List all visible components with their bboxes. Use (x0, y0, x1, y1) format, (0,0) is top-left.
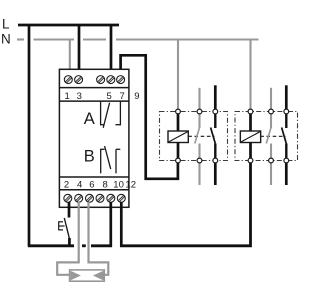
svg-text:12: 12 (125, 180, 136, 191)
svg-text:3: 3 (77, 91, 82, 102)
wire terminal 2 down (68, 202, 71, 218)
contact K2.2 stub above (285, 85, 288, 109)
coil K2 lead lower (249, 143, 252, 161)
L rail (18, 24, 119, 27)
N rail (17, 38, 259, 40)
node K1.2 bottom (213, 158, 218, 163)
node K2.1 bottom (269, 158, 274, 163)
node K1 coil top (176, 109, 181, 114)
node K2 coil bottom (248, 158, 253, 163)
node K1.1 top (197, 109, 202, 114)
svg-text:N: N (1, 32, 11, 47)
terminal 10 (107, 194, 115, 202)
manual switch E actuator (59, 221, 65, 230)
valve M1 (70, 270, 105, 281)
contact K1.2 stub below (214, 163, 217, 186)
wire N to coil K2 (249, 40, 251, 110)
svg-text:1: 1 (65, 91, 70, 102)
wire terminal 10 down (109, 202, 112, 247)
terminal 2 (64, 194, 72, 202)
wire L to terminal 3 (78, 25, 81, 77)
terminal blank top (97, 76, 105, 84)
coil K1 lead upper (177, 114, 180, 132)
svg-text:10: 10 (113, 180, 124, 191)
svg-text:8: 8 (102, 180, 107, 191)
contact K2.1 (266, 114, 271, 159)
wire terminal 12 down (120, 202, 123, 247)
terminal 12 (117, 194, 125, 202)
terminal 3 (75, 76, 83, 84)
top terminal numbers (65, 91, 125, 102)
contact K2.1 stub below (270, 163, 272, 186)
contact K1.1 (195, 114, 200, 159)
node K2.2 bottom (284, 158, 289, 163)
node K1.2 top (213, 109, 218, 114)
switch B (100, 146, 120, 173)
node K1.1 bottom (197, 158, 202, 163)
contact K1.2 (211, 114, 216, 159)
terminal 8 (96, 194, 104, 202)
node K1 coil bottom (176, 158, 181, 163)
svg-text:4: 4 (77, 180, 82, 191)
terminal 7 (117, 76, 125, 84)
bottom terminal numbers (64, 180, 136, 191)
svg-text:2: 2 (64, 180, 69, 191)
contact K2.2 stub below (285, 163, 288, 186)
svg-text:L: L (2, 17, 10, 32)
manual switch E blade (64, 218, 69, 239)
terminal 6 (86, 194, 94, 202)
coil K2 (240, 131, 260, 143)
svg-text:5: 5 (107, 91, 112, 102)
contactor K2 boundary (235, 112, 298, 161)
wire terminal 6 to valve (87, 202, 108, 275)
coil K2 lead upper (249, 114, 252, 132)
terminal 5 (107, 76, 115, 84)
switch A (100, 101, 120, 128)
bus right segment to coil K2 (120, 161, 250, 246)
coil K1 lead lower (177, 143, 180, 161)
wire switch E to bus (68, 238, 71, 246)
linkage K2 (260, 135, 285, 137)
wire N to terminal 1 (69, 40, 71, 77)
wire L to terminal 5 (110, 25, 113, 77)
node K2 coil top (248, 109, 253, 114)
svg-text:9: 9 (134, 91, 139, 102)
svg-text:B: B (84, 148, 95, 166)
wire terminal 4 to valve (57, 202, 80, 275)
contact K1.1 stub above (198, 88, 200, 110)
contact K2.2 (282, 114, 287, 159)
terminal 1 (64, 76, 72, 84)
svg-text:7: 7 (120, 91, 125, 102)
bus segment to terminal 10 (91, 244, 112, 247)
terminal 4 (75, 194, 83, 202)
node K2.1 top (269, 109, 274, 114)
node K2.2 top (284, 109, 289, 114)
contactor K1 boundary (160, 112, 228, 161)
wire terminal 7 to coil K1 (121, 55, 178, 179)
wire L drop left (28, 25, 31, 246)
svg-text:6: 6 (89, 180, 94, 191)
bus left segment (28, 244, 74, 247)
coil K1 (168, 131, 188, 143)
contact K2.1 stub above (270, 88, 272, 110)
contact K1.1 stub below (198, 163, 200, 186)
wire N to coil K1 (177, 40, 179, 110)
time switch U1 body (59, 69, 128, 207)
svg-text:A: A (84, 110, 95, 128)
contact K1.2 stub above (214, 85, 217, 109)
bus segment between gray wires (82, 244, 86, 247)
linkage K1 (188, 135, 214, 137)
